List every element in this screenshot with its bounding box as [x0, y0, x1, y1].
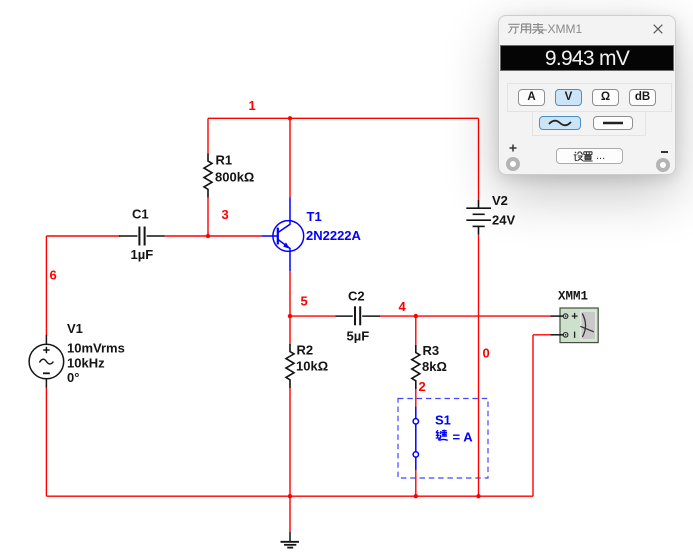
ground [281, 532, 300, 548]
resistor R3 [412, 345, 420, 389]
value 800kΩ [215, 170, 254, 185]
svg-text:8kΩ: 8kΩ [422, 359, 447, 374]
value 5µF [347, 329, 370, 344]
node 0 [483, 346, 490, 361]
svg-text:R2: R2 [297, 342, 314, 357]
svg-text:2N2222A: 2N2222A [306, 228, 362, 243]
svg-text:S1: S1 [435, 413, 451, 428]
svg-text:5µF: 5µF [347, 329, 370, 344]
wire collector drop [289, 118, 291, 197]
wire emitter drop [289, 271, 291, 316]
wire base row left [46, 235, 120, 237]
svg-text:800kΩ: 800kΩ [215, 170, 254, 185]
value 10kΩ [296, 359, 328, 374]
instrument XMM1 [551, 308, 599, 343]
value 10mVrms [67, 340, 125, 355]
node 6 [50, 268, 57, 283]
wire R3 top lead [415, 316, 417, 345]
capacitor C2 [336, 306, 380, 325]
wire emitter row right to meter [380, 315, 551, 317]
svg-text:V2: V2 [492, 193, 508, 208]
wire left column upper [45, 236, 47, 336]
wire ground lead [289, 496, 291, 531]
wire R1 bottom lead [207, 198, 209, 237]
svg-text:3: 3 [222, 207, 229, 222]
svg-text:C1: C1 [132, 207, 149, 222]
svg-text:24V: 24V [492, 212, 515, 227]
label V1 [67, 321, 83, 336]
svg-text:= A: = A [453, 430, 474, 445]
svg-text:4: 4 [399, 299, 407, 314]
label XMM1 [558, 290, 588, 304]
label S1 [435, 413, 451, 428]
svg-text:1µF: 1µF [131, 247, 154, 262]
junction node3 [206, 234, 210, 238]
svg-text:10kHz: 10kHz [67, 355, 105, 370]
junction node5 [288, 314, 292, 318]
switch S1 box [398, 399, 488, 479]
transistor T1 [262, 198, 304, 272]
svg-text:10kΩ: 10kΩ [296, 359, 328, 374]
wire net0 lower [478, 235, 480, 496]
svg-text:10mVrms: 10mVrms [67, 340, 125, 355]
node 5 [301, 294, 308, 309]
svg-text:T1: T1 [307, 209, 322, 224]
svg-text:6: 6 [50, 268, 57, 283]
junction S1 bottom [414, 494, 418, 498]
wire R2 top lead [289, 316, 291, 344]
resistor R1 [204, 154, 212, 198]
wire node2 stub [415, 389, 417, 407]
svg-text:0: 0 [483, 346, 490, 361]
capacitor C1 [119, 227, 165, 246]
wire V1 bottom [45, 388, 47, 497]
resistor R2 [286, 344, 294, 388]
wire base row right [165, 235, 263, 237]
svg-text:5: 5 [301, 294, 308, 309]
wire bottom horizontal [46, 495, 533, 497]
svg-text:R1: R1 [216, 152, 233, 167]
value 8kΩ [422, 359, 447, 374]
wire R2 bottom lead [289, 388, 291, 496]
switch S1 [413, 407, 418, 471]
node 3 [222, 207, 229, 222]
junction node4 [414, 314, 418, 318]
junction ground node [288, 494, 292, 498]
node 2 [419, 379, 426, 394]
label C2 [348, 288, 365, 303]
value 10kHz [67, 355, 105, 370]
wire XMM1 minus stub [533, 334, 551, 336]
wire XMM1 minus vertical [532, 335, 534, 496]
label R1 [216, 152, 233, 167]
node 1 [249, 98, 256, 113]
source V1 [29, 335, 64, 388]
svg-text:V1: V1 [67, 321, 83, 336]
wire S1 bottom [415, 470, 417, 496]
value key A [436, 430, 473, 445]
value 1µF [131, 247, 154, 262]
node 4 [399, 299, 407, 314]
svg-text:1: 1 [249, 98, 256, 113]
svg-text:XMM1: XMM1 [558, 290, 588, 304]
label T1 [307, 209, 322, 224]
label R3 [423, 343, 440, 358]
svg-text:2: 2 [419, 379, 426, 394]
svg-text:C2: C2 [348, 288, 365, 303]
label R2 [297, 342, 314, 357]
junction node1 [288, 116, 292, 120]
wire net0 upper [478, 118, 480, 200]
wire emitter row left [290, 315, 336, 317]
svg-text:R3: R3 [423, 343, 440, 358]
value 0deg [67, 370, 79, 385]
junction net0 bottom [476, 494, 480, 498]
source V2 [466, 200, 491, 235]
svg-text:0°: 0° [67, 370, 79, 385]
label V2 [492, 193, 508, 208]
label C1 [132, 207, 149, 222]
value 2N2222A [306, 228, 362, 243]
wire net1 top horizontal [208, 117, 479, 119]
wire R1 top lead [207, 118, 209, 154]
value 24V [492, 212, 515, 227]
